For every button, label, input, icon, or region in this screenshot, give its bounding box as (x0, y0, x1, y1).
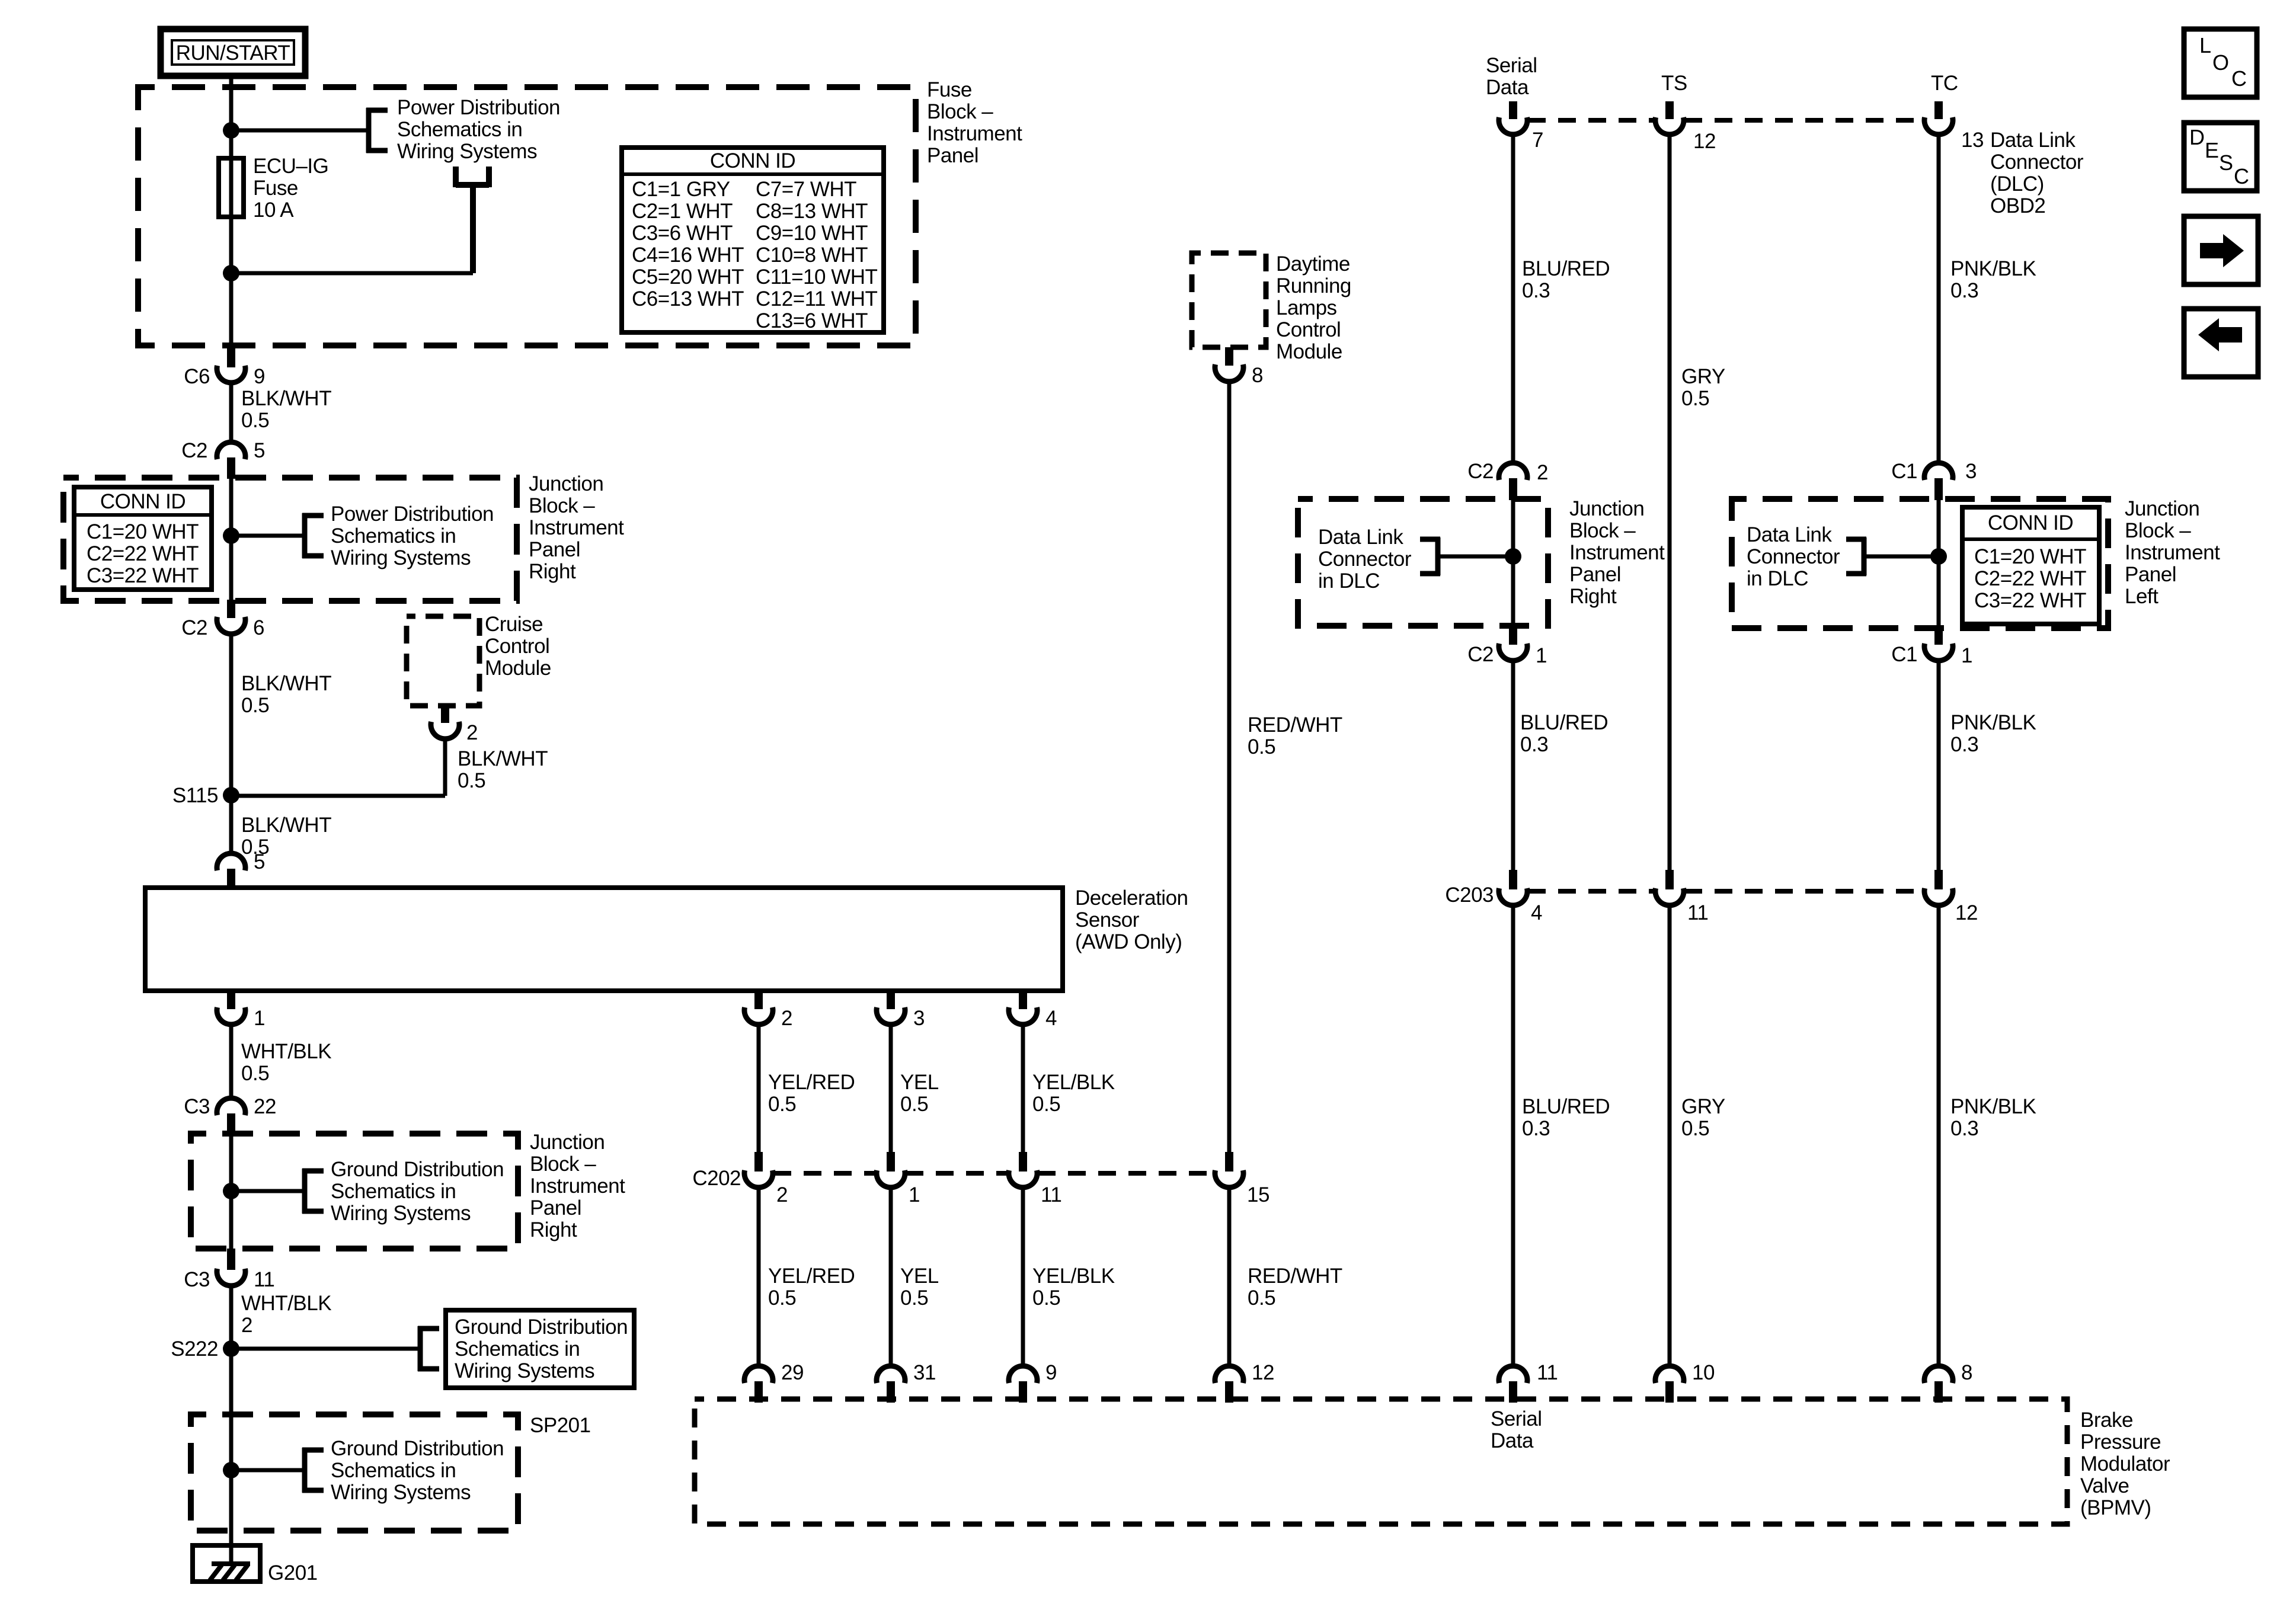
svg-text:C203: C203 (1445, 884, 1494, 907)
svg-text:Junction: Junction (529, 472, 603, 495)
svg-text:C1=1 GRY: C1=1 GRY (632, 178, 730, 201)
svg-text:Ground Distribution: Ground Distribution (331, 1158, 504, 1181)
svg-text:Ground Distribution: Ground Distribution (331, 1437, 504, 1460)
svg-text:C2=22 WHT: C2=22 WHT (1974, 567, 2086, 590)
svg-text:S115: S115 (172, 784, 218, 807)
svg-text:Data Link: Data Link (1990, 129, 2076, 152)
svg-text:Data Link: Data Link (1747, 523, 1832, 546)
svg-text:0.5: 0.5 (1681, 1117, 1709, 1140)
svg-text:BLK/WHT: BLK/WHT (241, 387, 331, 410)
svg-text:D: D (2189, 125, 2205, 149)
svg-text:2: 2 (1537, 461, 1548, 484)
svg-text:0.3: 0.3 (1520, 733, 1548, 756)
svg-text:YEL/RED: YEL/RED (768, 1071, 855, 1094)
svg-text:Panel: Panel (1569, 563, 1621, 586)
svg-text:Module: Module (1276, 340, 1342, 363)
svg-text:Block –: Block – (1569, 519, 1636, 542)
svg-text:Modulator: Modulator (2080, 1452, 2170, 1475)
svg-text:C2: C2 (181, 439, 207, 462)
svg-text:C6: C6 (184, 365, 210, 388)
svg-text:0.5: 0.5 (1248, 735, 1275, 758)
svg-text:Deceleration: Deceleration (1075, 886, 1188, 910)
svg-text:29: 29 (781, 1361, 804, 1384)
svg-text:GRY: GRY (1681, 365, 1725, 388)
svg-text:0.5: 0.5 (1032, 1286, 1060, 1310)
svg-text:C8=13 WHT: C8=13 WHT (756, 200, 868, 223)
svg-text:5: 5 (254, 439, 265, 462)
svg-text:Control: Control (1276, 318, 1341, 341)
svg-text:C1: C1 (1891, 643, 1917, 666)
svg-text:BLU/RED: BLU/RED (1522, 257, 1610, 280)
svg-text:C3=22 WHT: C3=22 WHT (1974, 589, 2086, 612)
svg-text:Left: Left (2125, 585, 2159, 608)
svg-text:S: S (2219, 151, 2233, 175)
svg-text:C10=8 WHT: C10=8 WHT (756, 244, 868, 267)
svg-text:Instrument: Instrument (927, 122, 1022, 145)
svg-text:Wiring Systems: Wiring Systems (331, 546, 471, 569)
svg-text:Power Distribution: Power Distribution (331, 502, 494, 526)
svg-text:9: 9 (254, 365, 265, 388)
svg-text:C1=20 WHT: C1=20 WHT (1974, 545, 2086, 568)
svg-text:GRY: GRY (1681, 1095, 1725, 1118)
svg-text:22: 22 (254, 1095, 276, 1118)
svg-text:0.5: 0.5 (241, 694, 269, 717)
svg-text:TS: TS (1661, 72, 1687, 95)
svg-text:RED/WHT: RED/WHT (1248, 713, 1342, 737)
svg-text:7: 7 (1532, 129, 1543, 152)
svg-text:Wiring Systems: Wiring Systems (397, 140, 537, 163)
svg-text:RUN/START: RUN/START (176, 41, 290, 65)
svg-text:C13=6 WHT: C13=6 WHT (756, 309, 868, 332)
svg-text:BLU/RED: BLU/RED (1520, 711, 1608, 734)
svg-text:CONN ID: CONN ID (710, 149, 795, 172)
svg-text:C: C (2234, 164, 2249, 188)
svg-text:YEL/BLK: YEL/BLK (1032, 1071, 1115, 1094)
svg-text:12: 12 (1955, 901, 1978, 924)
svg-text:0.3: 0.3 (1522, 1117, 1550, 1140)
svg-text:Schematics in: Schematics in (455, 1337, 580, 1361)
svg-text:C9=10 WHT: C9=10 WHT (756, 222, 868, 245)
svg-text:in DLC: in DLC (1747, 567, 1808, 590)
svg-text:0.3: 0.3 (1950, 733, 1978, 756)
svg-text:Instrument: Instrument (1569, 541, 1665, 564)
svg-text:(DLC): (DLC) (1990, 172, 2044, 196)
svg-text:9: 9 (1045, 1361, 1057, 1384)
svg-text:1: 1 (909, 1183, 920, 1206)
svg-text:4: 4 (1045, 1007, 1057, 1030)
svg-text:10: 10 (1692, 1361, 1715, 1384)
svg-text:Pressure: Pressure (2080, 1430, 2161, 1454)
svg-text:O: O (2212, 50, 2229, 75)
svg-text:0.5: 0.5 (900, 1286, 928, 1310)
svg-text:C11=10 WHT: C11=10 WHT (756, 265, 878, 289)
svg-text:Serial: Serial (1491, 1407, 1542, 1430)
svg-text:C7=7 WHT: C7=7 WHT (756, 178, 856, 201)
svg-text:8: 8 (1252, 364, 1263, 387)
svg-text:CONN ID: CONN ID (100, 490, 186, 513)
svg-text:0.5: 0.5 (768, 1093, 796, 1116)
svg-text:TC: TC (1931, 72, 1958, 95)
svg-text:Wiring Systems: Wiring Systems (331, 1481, 471, 1504)
svg-text:(BPMV): (BPMV) (2080, 1496, 2151, 1519)
svg-text:Block –: Block – (530, 1153, 596, 1176)
svg-text:31: 31 (913, 1361, 936, 1384)
svg-text:0.5: 0.5 (241, 409, 269, 432)
svg-text:C2: C2 (1467, 643, 1494, 666)
svg-text:Instrument: Instrument (529, 516, 624, 539)
svg-text:Junction: Junction (2125, 497, 2199, 520)
svg-text:OBD2: OBD2 (1990, 194, 2045, 217)
svg-text:WHT/BLK: WHT/BLK (241, 1040, 331, 1063)
svg-text:Serial: Serial (1486, 54, 1537, 77)
svg-text:C6=13 WHT: C6=13 WHT (632, 287, 744, 311)
svg-text:C2=22 WHT: C2=22 WHT (87, 542, 199, 565)
svg-text:Fuse: Fuse (253, 177, 298, 200)
svg-text:PNK/BLK: PNK/BLK (1950, 711, 2036, 734)
svg-text:C12=11 WHT: C12=11 WHT (756, 287, 878, 311)
svg-text:BLK/WHT: BLK/WHT (241, 672, 331, 695)
svg-text:0.5: 0.5 (1248, 1286, 1275, 1310)
svg-text:2: 2 (466, 721, 478, 744)
svg-text:0.5: 0.5 (458, 769, 485, 792)
svg-text:3: 3 (913, 1007, 925, 1030)
svg-text:13: 13 (1961, 129, 1984, 152)
svg-text:BLK/WHT: BLK/WHT (458, 747, 548, 770)
svg-text:E: E (2205, 138, 2219, 162)
svg-text:in DLC: in DLC (1318, 569, 1380, 593)
svg-text:C: C (2231, 66, 2247, 91)
svg-text:Right: Right (530, 1218, 577, 1241)
svg-text:Data: Data (1491, 1429, 1534, 1452)
svg-text:0.3: 0.3 (1950, 1117, 1978, 1140)
svg-text:Junction: Junction (1569, 497, 1644, 520)
svg-text:YEL: YEL (900, 1265, 939, 1288)
svg-text:0.5: 0.5 (1032, 1093, 1060, 1116)
svg-text:1: 1 (1961, 644, 1972, 667)
svg-text:15: 15 (1247, 1183, 1269, 1206)
svg-text:PNK/BLK: PNK/BLK (1950, 257, 2036, 280)
svg-text:WHT/BLK: WHT/BLK (241, 1292, 331, 1315)
svg-text:YEL/BLK: YEL/BLK (1032, 1265, 1115, 1288)
svg-text:Data Link: Data Link (1318, 526, 1403, 549)
svg-text:Fuse: Fuse (927, 78, 972, 101)
svg-text:Panel: Panel (2125, 563, 2176, 586)
svg-text:YEL/RED: YEL/RED (768, 1265, 855, 1288)
svg-text:BLK/WHT: BLK/WHT (241, 814, 331, 837)
svg-text:RED/WHT: RED/WHT (1248, 1265, 1342, 1288)
svg-text:10 A: 10 A (253, 199, 294, 222)
svg-text:Schematics in: Schematics in (397, 118, 522, 141)
svg-text:Block –: Block – (2125, 519, 2191, 542)
svg-text:8: 8 (1961, 1361, 1972, 1384)
svg-text:11: 11 (1687, 901, 1708, 924)
svg-text:CONN ID: CONN ID (1988, 511, 2073, 534)
svg-text:C3=6 WHT: C3=6 WHT (632, 222, 733, 245)
svg-text:(AWD Only): (AWD Only) (1075, 930, 1182, 953)
svg-text:0.3: 0.3 (1522, 279, 1550, 302)
svg-text:Daytime: Daytime (1276, 252, 1350, 276)
svg-text:C202: C202 (692, 1167, 741, 1190)
svg-text:ECU–IG: ECU–IG (253, 155, 328, 178)
svg-text:Wiring Systems: Wiring Systems (331, 1202, 471, 1225)
svg-text:Schematics in: Schematics in (331, 1459, 456, 1482)
svg-text:C4=16 WHT: C4=16 WHT (632, 244, 744, 267)
svg-text:Connector: Connector (1318, 548, 1412, 571)
svg-text:C1=20 WHT: C1=20 WHT (87, 520, 199, 543)
svg-text:C1: C1 (1891, 460, 1917, 483)
svg-text:C2=1 WHT: C2=1 WHT (632, 200, 733, 223)
svg-text:Power Distribution: Power Distribution (397, 96, 560, 119)
svg-text:C2: C2 (181, 616, 207, 639)
svg-text:2: 2 (781, 1007, 792, 1030)
svg-text:0.5: 0.5 (768, 1286, 796, 1310)
svg-text:0.5: 0.5 (1681, 387, 1709, 410)
svg-text:BLU/RED: BLU/RED (1522, 1095, 1610, 1118)
svg-text:Brake: Brake (2080, 1409, 2133, 1432)
svg-text:Right: Right (1569, 585, 1617, 608)
svg-text:Valve: Valve (2080, 1474, 2129, 1497)
svg-text:YEL: YEL (900, 1071, 939, 1094)
svg-text:3: 3 (1965, 460, 1977, 483)
svg-text:1: 1 (1536, 644, 1547, 667)
svg-text:Instrument: Instrument (2125, 541, 2220, 564)
svg-text:Control: Control (485, 635, 549, 658)
svg-text:Module: Module (485, 657, 551, 680)
svg-text:Schematics in: Schematics in (331, 1180, 456, 1203)
svg-text:Panel: Panel (927, 144, 978, 167)
svg-text:SP201: SP201 (530, 1414, 591, 1437)
svg-text:2: 2 (241, 1314, 252, 1337)
svg-text:C5=20 WHT: C5=20 WHT (632, 265, 744, 289)
svg-text:Ground Distribution: Ground Distribution (455, 1315, 628, 1339)
svg-text:Junction: Junction (530, 1131, 605, 1154)
svg-text:Sensor: Sensor (1075, 908, 1140, 932)
svg-text:L: L (2199, 33, 2211, 57)
svg-text:2: 2 (776, 1183, 788, 1206)
svg-text:Panel: Panel (529, 538, 580, 561)
svg-text:5: 5 (254, 850, 265, 873)
svg-text:0.3: 0.3 (1950, 279, 1978, 302)
svg-text:Block –: Block – (927, 100, 993, 123)
svg-text:PNK/BLK: PNK/BLK (1950, 1095, 2036, 1118)
svg-text:Block –: Block – (529, 494, 595, 517)
svg-text:11: 11 (1537, 1361, 1558, 1384)
svg-text:C3=22 WHT: C3=22 WHT (87, 564, 199, 587)
svg-text:Instrument: Instrument (530, 1174, 625, 1198)
svg-text:Data: Data (1486, 76, 1529, 99)
svg-text:11: 11 (1041, 1183, 1061, 1206)
svg-text:0.5: 0.5 (241, 1062, 269, 1085)
svg-text:C2: C2 (1467, 460, 1494, 483)
svg-text:Schematics in: Schematics in (331, 524, 456, 548)
svg-text:G201: G201 (268, 1561, 318, 1585)
svg-text:Right: Right (529, 560, 576, 583)
svg-text:11: 11 (254, 1268, 274, 1291)
svg-text:12: 12 (1693, 130, 1716, 153)
svg-text:Connector: Connector (1747, 545, 1840, 568)
svg-text:12: 12 (1252, 1361, 1274, 1384)
svg-text:4: 4 (1531, 901, 1542, 924)
svg-text:Lamps: Lamps (1276, 296, 1337, 319)
svg-text:Running: Running (1276, 274, 1351, 297)
svg-text:1: 1 (254, 1007, 265, 1030)
svg-text:Panel: Panel (530, 1196, 581, 1219)
svg-text:6: 6 (253, 616, 264, 639)
svg-text:0.5: 0.5 (900, 1093, 928, 1116)
svg-text:C3: C3 (184, 1095, 210, 1118)
svg-text:Wiring Systems: Wiring Systems (455, 1359, 594, 1382)
svg-text:S222: S222 (171, 1337, 218, 1361)
svg-text:Connector: Connector (1990, 151, 2084, 174)
svg-text:C3: C3 (184, 1268, 210, 1291)
svg-text:Cruise: Cruise (485, 613, 543, 636)
